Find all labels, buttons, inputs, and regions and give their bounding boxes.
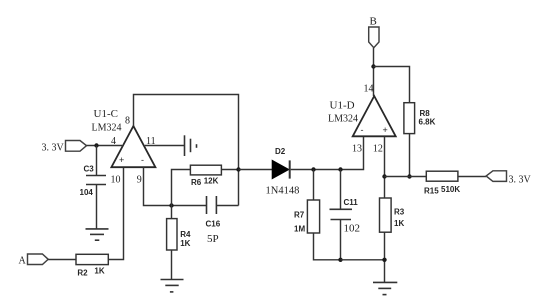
resistor R15 bbox=[426, 171, 458, 181]
wire D2 anode bbox=[239, 169, 273, 171]
wire R2 to U1-C pin10 bbox=[108, 167, 123, 260]
svg-text:R6: R6 bbox=[191, 178, 202, 187]
resistor R4 bbox=[167, 219, 177, 250]
svg-text:U1-D: U1-D bbox=[330, 100, 355, 112]
resistor R7 bbox=[307, 200, 319, 233]
resistor R4 leg top bbox=[171, 206, 173, 219]
svg-text:R3: R3 bbox=[394, 208, 405, 217]
wire pin8 feedback top rail bbox=[134, 95, 239, 206]
svg-text:3. 3V: 3. 3V bbox=[509, 175, 532, 186]
svg-text:9: 9 bbox=[137, 175, 142, 186]
wire R4 to ground bbox=[171, 250, 173, 280]
svg-text:5P: 5P bbox=[207, 233, 219, 245]
wire R6 left leg bbox=[172, 170, 191, 206]
power port 3.3V right connector bbox=[486, 171, 506, 182]
wire R6 right bbox=[221, 169, 238, 171]
resistor R2 bbox=[76, 254, 108, 264]
svg-text:104: 104 bbox=[80, 188, 94, 197]
svg-text:B: B bbox=[370, 16, 377, 28]
node junction B/R8 bbox=[371, 64, 375, 68]
wire C16 right to vertical bbox=[217, 205, 239, 207]
resistor R7 leg top bbox=[313, 170, 315, 201]
resistor R6 bbox=[190, 165, 221, 175]
ground below R3 bbox=[373, 282, 397, 294]
wire pin9 down and lower rail bbox=[144, 167, 207, 205]
op-amp U1-D triangle bbox=[353, 96, 396, 136]
wire R15 to 3.3V right bbox=[458, 176, 486, 178]
wire 3.3V to U1-C pin4 bbox=[87, 145, 123, 147]
node junction R3/bottom rail bbox=[382, 258, 386, 262]
svg-text:R7: R7 bbox=[294, 211, 305, 220]
svg-text:R2: R2 bbox=[77, 269, 88, 278]
svg-text:C3: C3 bbox=[84, 165, 95, 174]
capacitor C11 plates bbox=[330, 209, 353, 219]
diode D2 cathode bar bbox=[289, 160, 291, 178]
wire B to U1-D pin14 bbox=[373, 48, 375, 96]
wire bottom rail to R3 bbox=[341, 259, 385, 261]
svg-text:+: + bbox=[383, 125, 388, 135]
wire to R8 top bbox=[374, 67, 410, 103]
node junction C11 bbox=[338, 167, 342, 171]
svg-text:3. 3V: 3. 3V bbox=[42, 143, 65, 154]
capacitor C3 plates bbox=[86, 176, 106, 185]
diode D2 bbox=[272, 160, 289, 178]
node junction feedback/D2 bbox=[236, 167, 240, 171]
wire pin11 to ground bbox=[145, 145, 185, 147]
wire R8 bottom bbox=[409, 134, 411, 177]
svg-text:-: - bbox=[141, 155, 144, 165]
power port 3.3V left connector bbox=[66, 141, 87, 152]
wire A to R2 bbox=[48, 259, 76, 261]
node junction R7 bbox=[311, 167, 315, 171]
svg-text:12: 12 bbox=[373, 144, 383, 155]
svg-text:8: 8 bbox=[125, 116, 130, 127]
op-amp U1-C triangle bbox=[111, 126, 155, 167]
node junction R8/R15 bbox=[407, 174, 411, 178]
svg-text:1K: 1K bbox=[394, 219, 404, 228]
svg-text:R4: R4 bbox=[180, 230, 191, 239]
svg-text:1K: 1K bbox=[94, 267, 104, 276]
svg-text:LM324: LM324 bbox=[92, 123, 122, 134]
svg-text:6.8K: 6.8K bbox=[419, 118, 436, 127]
svg-text:1M: 1M bbox=[294, 225, 305, 234]
node junction pin9/R4/R6 bbox=[169, 203, 173, 207]
svg-text:-: - bbox=[361, 125, 364, 135]
svg-text:102: 102 bbox=[344, 223, 361, 235]
node junction 3.3V/C3 bbox=[94, 143, 98, 147]
node junction C11 bottom bbox=[338, 258, 342, 262]
svg-text:A: A bbox=[19, 256, 27, 267]
node junction pin12/R15 bbox=[382, 174, 386, 178]
svg-text:1N4148: 1N4148 bbox=[266, 186, 300, 197]
capacitor C11 leg top bbox=[340, 170, 342, 210]
wire D2 cathode to pin13 bbox=[291, 137, 364, 170]
wire C3 to ground bbox=[96, 185, 98, 230]
svg-text:C16: C16 bbox=[206, 220, 221, 229]
svg-text:+: + bbox=[119, 155, 124, 165]
capacitor C16 plates bbox=[207, 196, 217, 214]
svg-text:10: 10 bbox=[111, 175, 121, 186]
svg-text:C11: C11 bbox=[344, 198, 359, 207]
ground below C3 bbox=[86, 229, 109, 240]
svg-text:14: 14 bbox=[364, 84, 374, 95]
ground below R4 bbox=[161, 280, 184, 292]
ground sideways at pin 11 bbox=[185, 135, 197, 156]
svg-text:510K: 510K bbox=[441, 185, 460, 194]
svg-text:13: 13 bbox=[352, 144, 362, 155]
wire R3 to ground bbox=[384, 232, 386, 282]
wire output rail to R15 bbox=[385, 176, 427, 178]
wire R7 to bottom rail bbox=[314, 233, 341, 260]
svg-text:R15: R15 bbox=[424, 187, 439, 196]
resistor R3 bbox=[380, 198, 392, 232]
svg-text:1K: 1K bbox=[180, 239, 190, 248]
resistor R8 bbox=[404, 103, 415, 134]
svg-text:12K: 12K bbox=[204, 177, 219, 186]
port B connector bbox=[369, 27, 379, 48]
svg-text:U1-C: U1-C bbox=[94, 108, 118, 120]
wire C3 top bbox=[96, 146, 98, 176]
svg-text:4: 4 bbox=[111, 136, 116, 147]
svg-text:D2: D2 bbox=[275, 147, 286, 156]
port A connector bbox=[28, 254, 49, 265]
svg-text:LM324: LM324 bbox=[328, 114, 358, 125]
wire pin12 output down bbox=[384, 137, 386, 199]
wire C11 to bottom rail bbox=[340, 220, 342, 260]
